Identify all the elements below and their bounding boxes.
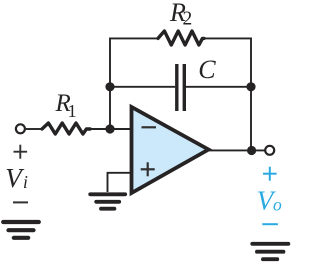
wire: input terminal to R1 [26, 128, 42, 130]
label Vi [5, 163, 28, 193]
resistor R1 [42, 123, 90, 134]
svg-text:o: o [273, 195, 282, 215]
label plus sign of Vi [14, 145, 28, 159]
capacitor C [177, 64, 185, 111]
label R2 [169, 0, 192, 29]
terminal: output Vo [265, 146, 274, 155]
label minus sign of Vo (cyan) [262, 223, 278, 225]
op-amp non-inverting input sign (plus) [141, 162, 155, 176]
node: right capacitor junction [246, 82, 255, 91]
wire: op-amp output to output terminal [209, 149, 265, 151]
wire: left vertical feedback branch (node to R2 top corner) [110, 38, 158, 129]
label minus sign of Vi [13, 201, 28, 203]
node: junction of R1 / feedback branch / op-amp inverting input [105, 124, 114, 133]
ground: output reference [252, 244, 288, 259]
ground: input reference [3, 222, 39, 238]
ground: op-amp non-inverting input [90, 194, 125, 208]
wire: capacitor to right junction [186, 86, 251, 88]
op-amp U1 [132, 107, 209, 193]
terminal: input Vi [16, 124, 25, 133]
op-amp inverting input sign (minus) [142, 126, 157, 128]
wire: R1 to inverting input of op-amp [90, 128, 130, 130]
svg-text:i: i [23, 172, 28, 192]
wire: R2 to right vertical feedback branch [204, 38, 251, 150]
wire: non-inverting input to ground [108, 173, 132, 192]
wire: left capacitor junction to capacitor [110, 86, 175, 88]
node: output junction (feedback tap) [247, 146, 256, 155]
label R1 [55, 90, 77, 121]
svg-text:1: 1 [68, 101, 77, 121]
label Vo (cyan) [257, 185, 282, 215]
svg-text:C: C [198, 55, 216, 84]
resistor R2 [158, 31, 204, 45]
label plus sign of Vo (cyan) [263, 167, 277, 181]
node: left capacitor junction [105, 82, 114, 91]
svg-text:2: 2 [183, 8, 193, 29]
